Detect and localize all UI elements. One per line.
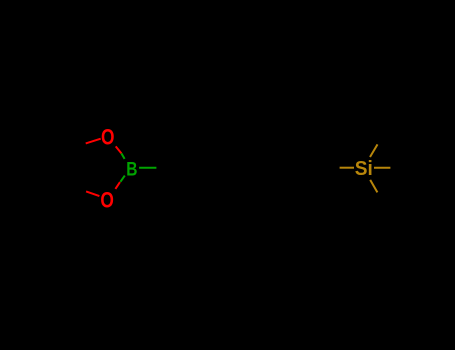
svg-text:O: O: [100, 188, 114, 213]
svg-text:B: B: [126, 158, 137, 180]
svg-text:Si: Si: [355, 158, 373, 180]
svg-text:O: O: [101, 125, 115, 150]
